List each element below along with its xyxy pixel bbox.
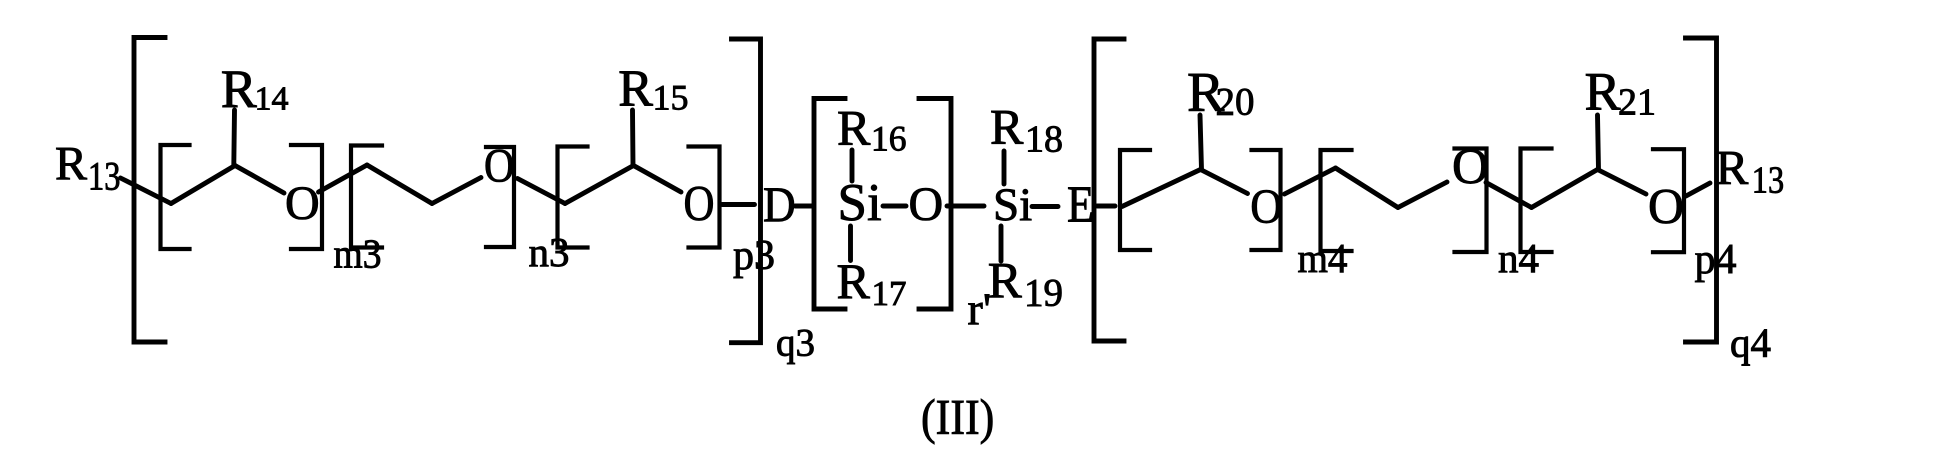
svg-text:R: R (837, 253, 871, 309)
svg-text:O: O (484, 140, 515, 193)
svg-text:13: 13 (1752, 160, 1784, 202)
svg-text:13: 13 (88, 154, 120, 199)
svg-text:R: R (55, 138, 87, 191)
svg-text:E: E (1067, 177, 1094, 234)
svg-text:n3: n3 (529, 229, 570, 275)
svg-text:18: 18 (1025, 119, 1063, 161)
svg-text:D: D (763, 176, 796, 232)
svg-text:q4: q4 (1730, 320, 1771, 366)
svg-text:14: 14 (255, 81, 289, 118)
svg-text:R: R (1716, 140, 1749, 195)
svg-text:Si: Si (838, 174, 882, 232)
svg-text:O: O (1452, 140, 1489, 196)
svg-text:R: R (1585, 62, 1621, 122)
svg-text:n4: n4 (1498, 235, 1539, 281)
svg-text:r': r' (968, 284, 992, 335)
svg-text:O: O (1648, 178, 1684, 234)
svg-text:19: 19 (1024, 272, 1063, 315)
svg-text:21: 21 (1618, 82, 1656, 124)
svg-text:R: R (837, 100, 871, 156)
svg-text:m3: m3 (334, 231, 382, 277)
svg-text:q3: q3 (776, 322, 815, 365)
svg-text:O: O (684, 175, 715, 231)
svg-text:(III): (III) (921, 389, 994, 445)
svg-text:O: O (1250, 179, 1282, 234)
svg-text:16: 16 (871, 119, 907, 159)
svg-text:20: 20 (1216, 81, 1255, 124)
svg-text:15: 15 (653, 78, 689, 118)
svg-text:O: O (909, 178, 944, 231)
svg-text:17: 17 (872, 274, 907, 313)
svg-text:p4: p4 (1695, 237, 1737, 283)
svg-text:Si: Si (993, 179, 1032, 231)
svg-text:R: R (988, 254, 1022, 310)
svg-text:R: R (221, 59, 257, 119)
svg-text:R: R (990, 99, 1024, 155)
svg-text:m4: m4 (1298, 235, 1348, 281)
svg-text:p3: p3 (733, 233, 775, 279)
svg-text:O: O (285, 177, 320, 230)
svg-text:R: R (618, 61, 653, 118)
